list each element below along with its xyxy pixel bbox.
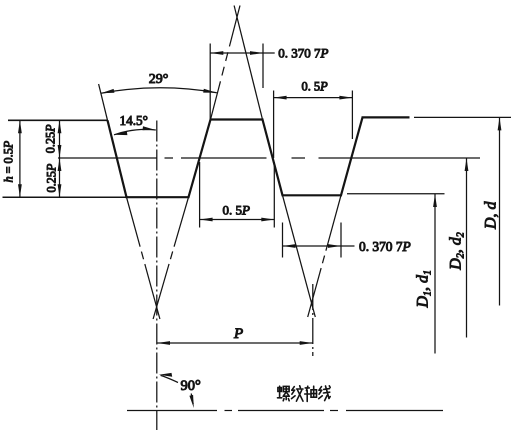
svg-text:D2, d2: D2, d2	[448, 232, 467, 271]
dimension 0.25P upper (vertical)	[59, 120, 61, 158]
extension line for 0.5P top dim, left	[273, 91, 275, 159]
svg-text:D1, d1: D1, d1	[415, 270, 434, 309]
svg-text:0. 370 7P: 0. 370 7P	[278, 45, 328, 60]
dimension arrow D,d (vertical, right)	[499, 117, 501, 305]
dimension P (pitch)	[157, 342, 313, 344]
extension line for 0.5P lower dim, left	[199, 162, 201, 228]
crest line left (outer diameter line, left of groove 1)	[8, 119, 108, 121]
groove 1 right flank extension down to vertex (thin, part dashed)	[153, 197, 188, 319]
extension line for 0.5P lower dim, right	[273, 162, 275, 228]
svg-text:0. 370 7P: 0. 370 7P	[359, 239, 411, 254]
svg-text:P: P	[233, 326, 243, 342]
dimension arrow D1,d1 (vertical)	[434, 194, 436, 354]
angle dimension 14.5 deg (arc with arrows)	[114, 129, 156, 134]
angle dimension 29 deg (arc with arrows)	[101, 88, 217, 93]
extension line for 0.3707P lower dim, right	[340, 223, 342, 258]
root line left (thin, from left margin to root flat of groove 1)	[3, 196, 127, 198]
groove 1 right flank (thick)	[189, 120, 211, 198]
groove 1 left flank extension up (thin)	[99, 84, 108, 120]
tooth crest flat (thick)	[210, 118, 264, 120]
groove 1 root flat (thick)	[126, 196, 190, 198]
svg-text:0. 5P: 0. 5P	[302, 80, 329, 94]
extension line for 0.3707P lower dim, left	[282, 223, 284, 258]
groove 2 right flank extension down to vertex (thin, part dashed)	[308, 195, 341, 317]
root extension line right (thin)	[347, 193, 445, 195]
label CJK: thread axis text "luo wen zhou xian" (drawn strokes)	[278, 386, 331, 402]
leader arrow from 90 deg to axis line	[191, 394, 193, 405]
char LUO	[278, 386, 290, 401]
thread profile: groove 1 left flank (thick)	[108, 120, 127, 197]
extension line for 0.5P top dim, right	[351, 91, 353, 140]
crest flat right (thick)	[362, 116, 410, 118]
groove 2 root flat (thick)	[282, 194, 343, 196]
svg-text:0. 5P: 0. 5P	[223, 202, 251, 217]
dimension 0.3707P lower	[283, 245, 355, 247]
thread axis line (horizontal dash-dot)	[127, 410, 443, 412]
tooth right flank (thick)	[263, 120, 283, 196]
svg-text:h = 0.5P: h = 0.5P	[2, 140, 16, 182]
leader arrow from 90 deg to center line	[161, 375, 179, 382]
crest extension line right (thin)	[414, 116, 511, 118]
dimension arrow D2,d2 (vertical)	[466, 158, 468, 338]
char XIAN	[319, 386, 331, 401]
svg-text:90°: 90°	[181, 378, 202, 394]
groove 2 left flank extension down to vertex (thin)	[283, 195, 316, 317]
svg-text:0.25P: 0.25P	[44, 124, 58, 153]
svg-text:D, d: D, d	[483, 200, 500, 230]
svg-text:14.5°: 14.5°	[120, 113, 148, 128]
dimension h=0.5P (vertical, left)	[19, 120, 21, 197]
groove 1 left flank extension down to vertex (thin, part dashed)	[127, 197, 160, 319]
dimension 0.5P top	[274, 97, 353, 99]
tooth right flank extension up to apex (thin)	[234, 6, 262, 120]
groove 1 center line (vertical dash-dot)	[156, 121, 158, 431]
svg-text:29°: 29°	[149, 72, 169, 87]
pitch line (dash-dot center line across profile)	[58, 157, 480, 159]
svg-text:0.25P: 0.25P	[44, 163, 58, 192]
tooth left flank extension up to apex (thin, part dashed)	[211, 6, 241, 120]
dimension 0.5P lower	[200, 219, 275, 221]
extension line for 0.3707P top dim, right	[262, 44, 264, 89]
char ZHOU	[305, 386, 317, 401]
extension line for 0.3707P top dim, left	[209, 44, 211, 120]
groove 2 center line (vertical)	[312, 284, 314, 356]
dimension 0.25P lower (vertical)	[59, 158, 61, 197]
char WEN	[292, 386, 304, 401]
dimension 0.3707P top	[210, 52, 274, 54]
groove 2 right flank (thick)	[341, 117, 363, 195]
